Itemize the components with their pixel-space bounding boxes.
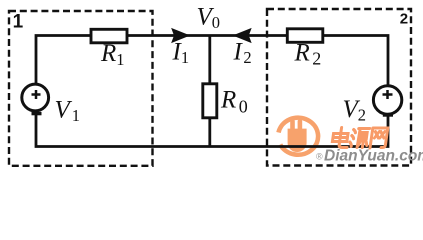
watermark logo ring bbox=[279, 118, 319, 155]
char 源 bbox=[349, 129, 370, 148]
current arrow I2 bbox=[234, 29, 251, 43]
watermark chinese text 电源网 bbox=[331, 128, 387, 149]
network 1 dashed box bbox=[9, 11, 153, 166]
voltage source V2 bbox=[373, 86, 401, 114]
V1 minus sign bbox=[32, 112, 42, 115]
watermark plug bbox=[288, 119, 307, 152]
resistor R1 bbox=[91, 29, 127, 43]
V1 plus sign bbox=[32, 90, 41, 99]
V2 minus sign bbox=[383, 113, 393, 116]
char 电 bbox=[332, 128, 350, 148]
network 2 dashed box bbox=[267, 9, 411, 166]
current arrow I1 bbox=[172, 29, 189, 43]
V2 plus sign bbox=[383, 90, 393, 99]
resistor R0 bbox=[203, 84, 217, 118]
svg-text:®: ® bbox=[316, 152, 323, 162]
svg-text:1: 1 bbox=[13, 12, 24, 33]
voltage source V1 bbox=[22, 84, 49, 111]
svg-text:DianYuan.com: DianYuan.com bbox=[324, 148, 423, 165]
resistor R2 bbox=[287, 29, 323, 43]
svg-text:2: 2 bbox=[400, 11, 408, 28]
circuit wires bbox=[36, 36, 388, 147]
char 网 bbox=[370, 128, 388, 148]
